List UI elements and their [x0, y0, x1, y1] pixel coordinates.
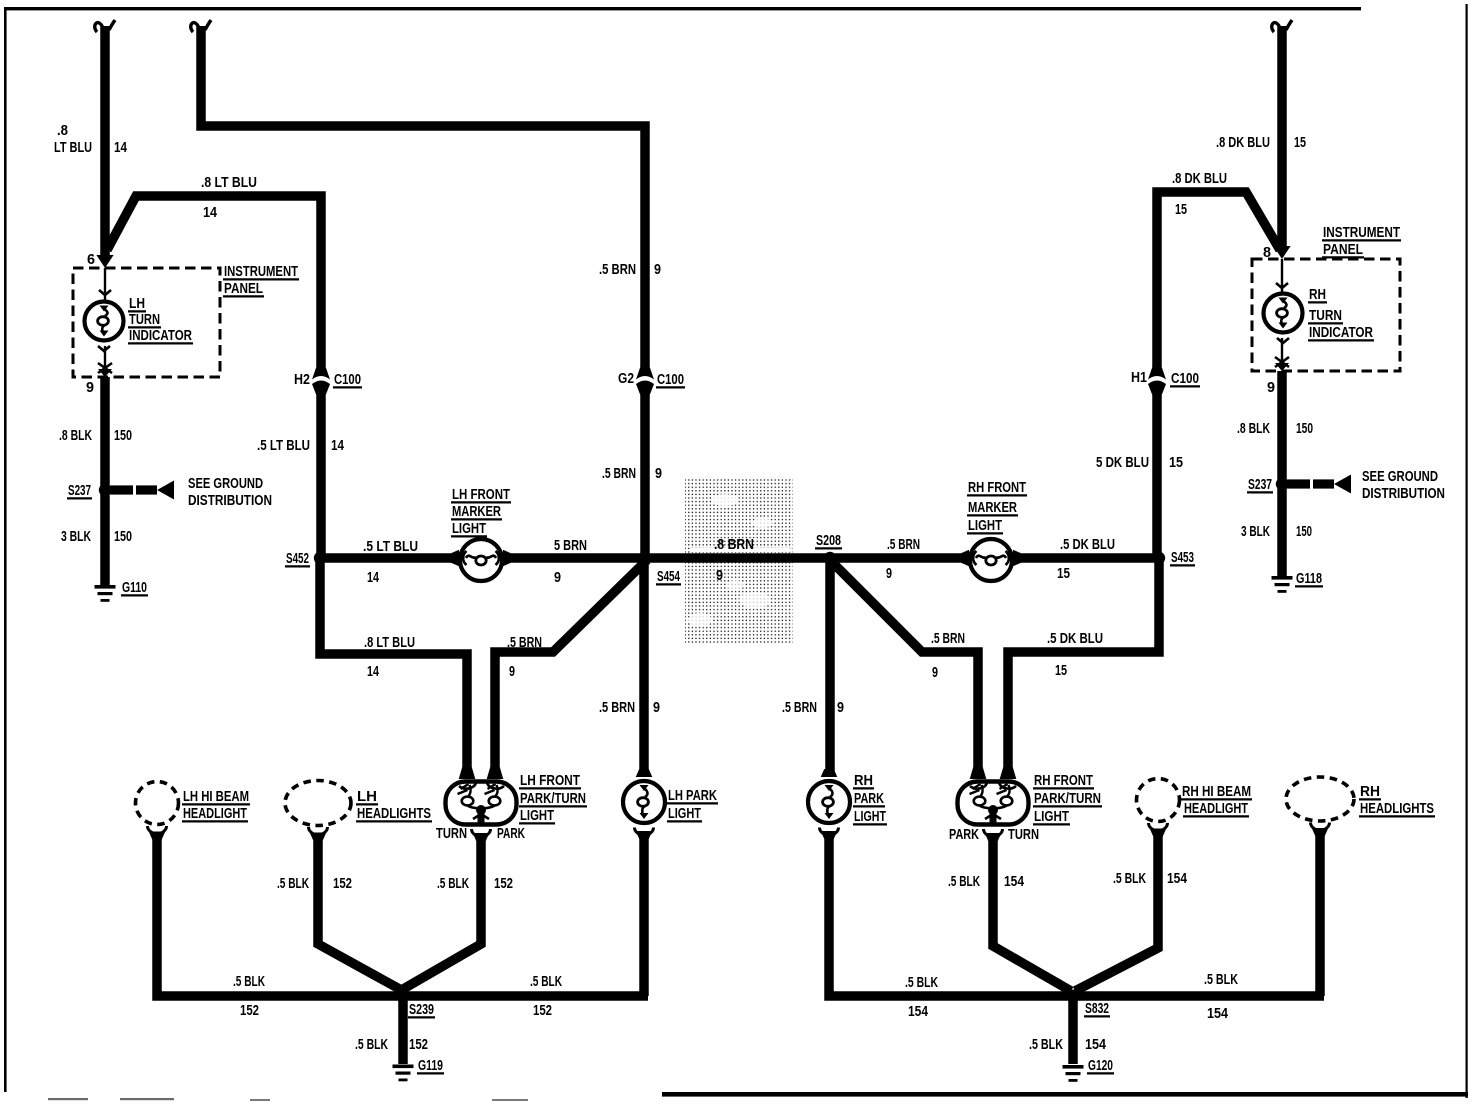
svg-text:154: 154 [1004, 873, 1024, 890]
svg-text:152: 152 [494, 875, 513, 892]
label RH TURN INDICATOR [1308, 286, 1374, 341]
svg-text:15: 15 [1055, 662, 1067, 679]
wire .5 BLK RH park/turn to S832 [993, 838, 1071, 991]
svg-text:.5 BRN: .5 BRN [599, 261, 636, 278]
label RH FRONT PARK/TURN LIGHT [1033, 772, 1102, 825]
svg-text:152: 152 [409, 1036, 428, 1053]
svg-text:HEADLIGHT: HEADLIGHT [183, 805, 248, 822]
label .5 BRN 9 (RH park leg) [782, 699, 844, 716]
wire .5 BLK RH park light to S832 run [829, 836, 1073, 996]
label 3 BLK 150 [61, 528, 132, 545]
svg-text:9: 9 [1267, 379, 1275, 396]
svg-text:G119: G119 [418, 1057, 443, 1074]
label 5 DK BLU 15 [1096, 454, 1183, 471]
label .8 BRN 9 (bus centre) [714, 536, 754, 584]
svg-text:150: 150 [114, 427, 132, 444]
ground G118 [1272, 576, 1293, 593]
svg-text:S453: S453 [1171, 549, 1194, 566]
svg-text:.5 BLK: .5 BLK [948, 873, 980, 890]
svg-text:LIGHT: LIGHT [968, 517, 1003, 534]
svg-text:152: 152 [333, 875, 352, 892]
label .8 LT BLU 14 (branch) [201, 174, 257, 221]
svg-text:.5 BRN: .5 BRN [602, 465, 636, 482]
svg-text:.5 BRN: .5 BRN [599, 699, 635, 716]
svg-text:TURN: TURN [436, 825, 467, 842]
svg-text:.5 DK BLU: .5 DK BLU [1060, 536, 1115, 553]
wire .5 BLK S239 to G119 [398, 996, 408, 1064]
svg-text:DISTRIBUTION: DISTRIBUTION [1362, 485, 1445, 502]
pin 9 label (RH) [1267, 379, 1275, 396]
svg-text:HEADLIGHTS: HEADLIGHTS [357, 805, 431, 822]
svg-text:9: 9 [654, 261, 661, 278]
svg-text:.5 BLK: .5 BLK [530, 973, 562, 990]
svg-text:.8: .8 [57, 122, 68, 139]
label LH HI BEAM HEADLIGHT [182, 788, 250, 822]
svg-text:LIGHT: LIGHT [668, 805, 702, 822]
ground G120 [1063, 1065, 1084, 1082]
svg-text:LH: LH [357, 788, 377, 805]
instrument panel outline (LH) [73, 268, 220, 377]
svg-text:9: 9 [886, 565, 892, 582]
svg-text:MARKER: MARKER [452, 503, 501, 520]
label .5 DK BLU 15 (leg) [1047, 630, 1103, 679]
label .8 DK BLU 15 (branch) [1172, 170, 1227, 218]
svg-text:152: 152 [240, 1002, 259, 1019]
label .8 DK BLU 15 (trunk C) [1216, 134, 1306, 151]
svg-text:.5 LT BLU: .5 LT BLU [363, 538, 418, 555]
svg-text:HEADLIGHTS: HEADLIGHTS [1360, 800, 1434, 817]
connector H1 C100 [1148, 368, 1166, 395]
label SEE GROUND DISTRIBUTION (RH) [1362, 468, 1445, 502]
label 3 BLK 150 (RH) [1241, 523, 1312, 540]
label S454 [656, 568, 681, 585]
label H1 C100 [1131, 369, 1200, 387]
label 5 BRN 9 (bus left) [554, 537, 587, 586]
svg-text:9: 9 [655, 465, 662, 482]
wire .5 BLK S832 to G120 [1068, 996, 1078, 1064]
splice S832 [1068, 990, 1079, 1001]
instrument panel outline (RH) [1252, 259, 1400, 371]
svg-text:PARK: PARK [949, 826, 979, 843]
svg-text:.5 BRN: .5 BRN [931, 630, 965, 647]
wire .5 BLK LH park/turn to S239 [398, 838, 481, 992]
splice S239 [398, 990, 409, 1001]
label .5 LT BLU 14 (bus) [363, 538, 418, 586]
wire .5 BRN S208 to RH marker [830, 553, 962, 563]
wire .5 DK BLU RH marker to S453 [1020, 553, 1163, 563]
svg-text:154: 154 [908, 1003, 928, 1020]
label LH PARK LIGHT [667, 787, 718, 822]
wire .8 LT BLU feed from fuse block (trunk A) [95, 20, 115, 256]
svg-text:INDICATOR: INDICATOR [1309, 324, 1373, 341]
label PARK (LH) [497, 825, 525, 842]
svg-text:154: 154 [1085, 1036, 1107, 1053]
svg-text:15: 15 [1169, 454, 1183, 471]
svg-text:14: 14 [203, 204, 217, 221]
svg-text:LH FRONT: LH FRONT [452, 486, 511, 503]
svg-text:G118: G118 [1296, 570, 1322, 587]
label .8 LT BLU 14 (leg) [364, 634, 415, 680]
label TURN (RH) [1008, 826, 1039, 843]
wire .5 BLK RH headlights to S832 run [1073, 835, 1324, 996]
label .5 BRN 9 (RH leg) [931, 630, 965, 681]
svg-text:9: 9 [716, 567, 723, 584]
label LH FRONT MARKER LIGHT [451, 486, 511, 537]
label .5 BRN 9 (bus right) [886, 536, 920, 582]
label TURN (LH) [436, 825, 467, 842]
label S208 [815, 532, 842, 549]
splice S452 [314, 552, 326, 564]
svg-text:LT BLU: LT BLU [54, 139, 92, 156]
svg-text:.5 BLK: .5 BLK [233, 973, 265, 990]
svg-text:3 BLK: 3 BLK [61, 528, 91, 545]
label .5 LT BLU 14 (H2 leg) [257, 437, 344, 454]
svg-text:C100: C100 [1171, 370, 1199, 387]
svg-text:.8 DK BLU: .8 DK BLU [1216, 134, 1270, 151]
label S453 [1170, 549, 1195, 566]
wire .5 BRN S454 to LH park/turn PARK terminal [495, 560, 647, 774]
label .5 DK BLU 15 (bus) [1057, 536, 1115, 582]
svg-text:LH PARK: LH PARK [668, 787, 717, 804]
svg-text:.5 BLK: .5 BLK [1204, 971, 1238, 988]
svg-text:RH FRONT: RH FRONT [968, 479, 1027, 496]
svg-text:PANEL: PANEL [224, 280, 263, 297]
svg-text:5 DK BLU: 5 DK BLU [1096, 454, 1149, 471]
svg-text:15: 15 [1057, 565, 1070, 582]
svg-text:S237: S237 [68, 482, 91, 499]
svg-text:152: 152 [533, 1002, 552, 1019]
svg-text:.8 LT BLU: .8 LT BLU [364, 634, 415, 651]
svg-text:S237: S237 [1248, 476, 1272, 493]
svg-text:G120: G120 [1088, 1057, 1113, 1074]
svg-text:150: 150 [114, 528, 132, 545]
svg-text:S832: S832 [1085, 1000, 1109, 1017]
svg-text:9: 9 [509, 663, 515, 680]
pin 9 label (LH) [86, 379, 94, 396]
RH front park/turn light lamp [958, 767, 1029, 841]
svg-text:5 BRN: 5 BRN [554, 537, 587, 554]
svg-text:LH FRONT: LH FRONT [520, 772, 581, 789]
pin 6 label [87, 251, 95, 268]
label S452 [285, 550, 310, 567]
svg-text:9: 9 [837, 699, 844, 716]
svg-text:9: 9 [653, 699, 660, 716]
splice S237 (LH) [99, 481, 174, 500]
label SEE GROUND DISTRIBUTION (LH) [188, 475, 272, 509]
svg-text:SEE GROUND: SEE GROUND [1362, 468, 1438, 485]
svg-text:.5 BRN: .5 BRN [887, 536, 920, 553]
svg-text:14: 14 [114, 139, 127, 156]
svg-text:.8 BLK: .8 BLK [1237, 420, 1270, 437]
RH headlights [1286, 777, 1354, 836]
label .5 BLK 154 (RH park/turn) [948, 873, 1024, 890]
label INSTRUMENT PANEL (LH) [223, 263, 299, 297]
wire .5 LT BLU from H2 to S452 [316, 394, 326, 558]
wire .5 BRN S208 to RH park light [825, 558, 835, 776]
svg-text:3 BLK: 3 BLK [1241, 523, 1270, 540]
wire 5 BRN LH marker to S454 [510, 553, 648, 563]
svg-text:DISTRIBUTION: DISTRIBUTION [188, 492, 272, 509]
label .8 BLK 150 (upper) [59, 427, 132, 444]
svg-text:.5 BLK: .5 BLK [355, 1036, 388, 1053]
label .8 LT BLU 14 (trunk A) [54, 122, 127, 156]
svg-text:.8 BLK: .8 BLK [59, 427, 92, 444]
svg-text:9: 9 [932, 664, 938, 681]
svg-text:G110: G110 [122, 579, 147, 596]
svg-text:S239: S239 [409, 1001, 434, 1018]
svg-text:S452: S452 [286, 550, 309, 567]
halftone shading patch [685, 477, 793, 643]
wire .8 BRN S454 to S208 [644, 553, 830, 563]
label .5 BLK 154 (RH hi beam) [1113, 870, 1187, 887]
svg-text:RH: RH [854, 772, 873, 789]
svg-text:6: 6 [87, 251, 95, 268]
ground G119 [393, 1065, 414, 1082]
wire .8 LT BLU branch to H2 C100 [107, 196, 321, 368]
svg-text:.8 LT BLU: .8 LT BLU [201, 174, 257, 191]
label S237 (RH) [1247, 476, 1273, 493]
svg-text:S208: S208 [816, 532, 841, 549]
svg-text:TURN: TURN [129, 311, 160, 328]
wire .5 BRN S208 to RH park/turn PARK terminal [830, 560, 978, 774]
svg-text:LIGHT: LIGHT [520, 807, 555, 824]
svg-text:PARK: PARK [497, 825, 525, 842]
ground G110 [95, 585, 116, 602]
label .5 BLK 154 (bottom right run) [1204, 971, 1238, 1022]
label G119 [417, 1057, 444, 1074]
label .5 BLK 152 (ground leg) [355, 1036, 428, 1053]
label RH PARK LIGHT [853, 772, 887, 825]
svg-text:.5 LT BLU: .5 LT BLU [257, 437, 310, 454]
svg-text:9: 9 [554, 569, 561, 586]
svg-text:.5 BLK: .5 BLK [1029, 1036, 1063, 1053]
label LH FRONT PARK/TURN LIGHT [519, 772, 587, 824]
wire .8 DK BLU feed (trunk C) [1272, 20, 1292, 247]
svg-text:LH: LH [129, 295, 145, 312]
svg-text:RH: RH [1360, 783, 1380, 800]
svg-text:PANEL: PANEL [1323, 241, 1363, 258]
svg-text:HEADLIGHT: HEADLIGHT [1184, 800, 1249, 817]
svg-text:14: 14 [367, 663, 379, 680]
svg-text:G2: G2 [618, 370, 634, 387]
label RH FRONT MARKER LIGHT [967, 479, 1027, 534]
label .5 BLK 152 (bottom right of S239) [530, 973, 562, 1019]
svg-text:.5 DK BLU: .5 DK BLU [1047, 630, 1103, 647]
svg-text:H2: H2 [294, 371, 310, 388]
wire .5 BRN S454 to LH park light [639, 558, 649, 776]
svg-text:PARK: PARK [854, 790, 884, 807]
svg-text:H1: H1 [1131, 369, 1147, 386]
wire .5 BRN from C100 to S454 [640, 394, 650, 558]
label .5 BRN 9 (above G2) [599, 261, 661, 278]
svg-text:INDICATOR: INDICATOR [129, 327, 192, 344]
svg-text:150: 150 [1296, 420, 1313, 437]
svg-text:14: 14 [331, 437, 344, 454]
svg-text:MARKER: MARKER [968, 499, 1017, 516]
wire .8 DK BLU branch to H1 [1157, 192, 1280, 368]
svg-text:PARK/TURN: PARK/TURN [520, 790, 586, 807]
svg-text:C100: C100 [334, 371, 361, 388]
LH hi beam headlight [136, 782, 179, 840]
wire .5 BLK RH hi beam to S832 [1075, 833, 1158, 991]
svg-text:LIGHT: LIGHT [854, 808, 887, 825]
svg-text:C100: C100 [657, 371, 684, 388]
svg-text:RH FRONT: RH FRONT [1034, 772, 1094, 789]
svg-text:PARK/TURN: PARK/TURN [1034, 790, 1101, 807]
label INSTRUMENT PANEL (RH) [1322, 224, 1401, 258]
pin 8 label [1263, 244, 1271, 261]
label S237 (LH) [67, 482, 92, 499]
wire .5 BLK LH hi beam to S239 run [157, 836, 648, 996]
wire .5 LT BLU S452 to LH marker [316, 553, 452, 563]
svg-text:.5 BRN: .5 BRN [507, 634, 542, 651]
label G2 C100 [618, 370, 685, 388]
label .5 BRN 9 (below G2) [602, 465, 662, 482]
svg-text:154: 154 [1167, 870, 1187, 887]
svg-text:TURN: TURN [1309, 307, 1342, 324]
node 8 entry arrow at RH turn indicator [1273, 246, 1290, 259]
wire .8 BLK 150 to G110 [100, 377, 110, 585]
svg-text:.5 BRN: .5 BRN [782, 699, 817, 716]
svg-text:RH HI BEAM: RH HI BEAM [1182, 783, 1251, 800]
svg-text:INSTRUMENT: INSTRUMENT [224, 263, 299, 280]
label .5 BLK 152 (LH headlights) [277, 875, 352, 892]
label .5 BLK 154 (RH park leg) [905, 974, 938, 1020]
wire .8 BLK 150 to G118 [1277, 371, 1287, 576]
svg-text:.8 DK BLU: .8 DK BLU [1172, 170, 1227, 187]
svg-text:TURN: TURN [1008, 826, 1039, 843]
svg-text:RH: RH [1309, 286, 1326, 303]
connector G2 C100 [636, 368, 654, 395]
RH hi beam headlight [1137, 779, 1180, 837]
label S832 [1084, 1000, 1110, 1017]
label LH TURN INDICATOR [128, 295, 193, 344]
svg-text:.5 BLK: .5 BLK [905, 974, 938, 991]
svg-text:154: 154 [1207, 1005, 1229, 1022]
label LH HEADLIGHTS [356, 788, 432, 822]
LH front park/turn light lamp [446, 767, 517, 841]
wire .5 DK BLU S453 to RH park/turn TURN terminal [1008, 558, 1159, 774]
svg-text:14: 14 [367, 569, 379, 586]
svg-text:LH HI BEAM: LH HI BEAM [183, 788, 249, 805]
label .5 BLK 152 (bottom left run) [233, 973, 265, 1019]
svg-text:15: 15 [1175, 201, 1187, 218]
label .5 BLK 152 (LH park/turn) [437, 875, 513, 892]
RH park light lamp [808, 769, 850, 839]
LH park light lamp [623, 769, 665, 839]
wire 5 DK BLU H1 to S453 [1152, 394, 1162, 558]
splice S454 [638, 552, 650, 564]
label .8 BLK 150 (RH upper) [1237, 420, 1313, 437]
splice S208 [824, 552, 836, 564]
wire .5 BLK LH park light to bottom run [639, 836, 649, 996]
label RH HEADLIGHTS [1359, 783, 1435, 817]
wire .5 BLK LH headlights to S239 [318, 837, 405, 992]
svg-text:150: 150 [1296, 523, 1312, 540]
label H2 C100 [294, 371, 362, 388]
svg-text:9: 9 [86, 379, 94, 396]
label RH HI BEAM HEADLIGHT [1181, 783, 1252, 817]
svg-text:LIGHT: LIGHT [452, 520, 487, 537]
svg-text:15: 15 [1294, 134, 1306, 151]
label S239 [408, 1001, 435, 1018]
label G118 [1295, 570, 1323, 587]
node 6 entry arrow at LH turn indicator [96, 255, 113, 268]
svg-text:LIGHT: LIGHT [1034, 808, 1070, 825]
label G120 [1087, 1057, 1114, 1074]
label G110 [121, 579, 148, 596]
svg-text:INSTRUMENT: INSTRUMENT [1323, 224, 1401, 241]
RH front marker light lamp [961, 539, 1021, 581]
splice S237 (RH) [1276, 475, 1351, 494]
LH turn indicator lamp [85, 268, 124, 377]
svg-text:.8 BRN: .8 BRN [714, 536, 754, 553]
svg-text:S454: S454 [657, 568, 680, 585]
LH headlights [285, 781, 351, 841]
wire .8 LT BLU S452 to LH park/turn TURN terminal [320, 558, 467, 774]
wire .5 BRN feed (trunk B) [191, 20, 645, 368]
svg-text:.5 BLK: .5 BLK [1113, 870, 1146, 887]
label .5 BRN 9 (LH park leg) [599, 699, 660, 716]
svg-text:.5 BLK: .5 BLK [437, 875, 469, 892]
LH front marker light lamp [451, 539, 511, 581]
splice S453 [1153, 552, 1165, 564]
svg-text:SEE GROUND: SEE GROUND [188, 475, 263, 492]
connector H2 C100 [312, 368, 330, 395]
RH turn indicator lamp [1264, 259, 1303, 371]
label .5 BLK 154 (RH ground leg) [1029, 1036, 1107, 1053]
label .5 BRN 9 (leg) [507, 634, 542, 680]
label PARK (RH) [949, 826, 979, 843]
svg-text:.5 BLK: .5 BLK [277, 875, 309, 892]
